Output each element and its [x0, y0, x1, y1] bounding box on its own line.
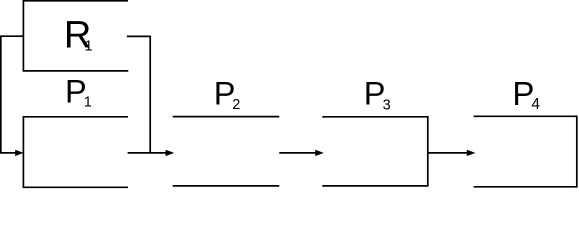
arrowhead into P1 — [15, 150, 23, 156]
svg-text:1: 1 — [85, 39, 93, 55]
svg-text:3: 3 — [383, 97, 391, 113]
wire feedback from left of R1 going down — [1, 36, 24, 153]
svg-text:4: 4 — [531, 96, 540, 113]
arrowhead into P2 — [166, 150, 175, 156]
arrowhead into P3 — [315, 150, 324, 156]
wire P3 output to P4 — [428, 152, 469, 154]
svg-text:1: 1 — [84, 94, 92, 110]
label P4 — [512, 75, 540, 113]
wire P2 output to P3 — [279, 152, 317, 154]
block P3 (open left side) — [322, 117, 428, 186]
wire P1 output to P2 — [128, 152, 168, 154]
label R1 — [64, 14, 93, 56]
block P1 (open right side) — [23, 117, 128, 188]
block R1 (open right side) — [23, 1, 128, 71]
arrowhead into P4 — [467, 150, 476, 156]
wire R1 output right and down to junction — [127, 36, 150, 152]
svg-text:2: 2 — [232, 97, 240, 113]
label P1 — [65, 74, 92, 111]
block P2 (top and bottom lines only) — [173, 117, 280, 186]
block P4 (open left side) — [474, 116, 577, 187]
label P2 — [214, 75, 241, 112]
label P3 — [364, 75, 391, 113]
